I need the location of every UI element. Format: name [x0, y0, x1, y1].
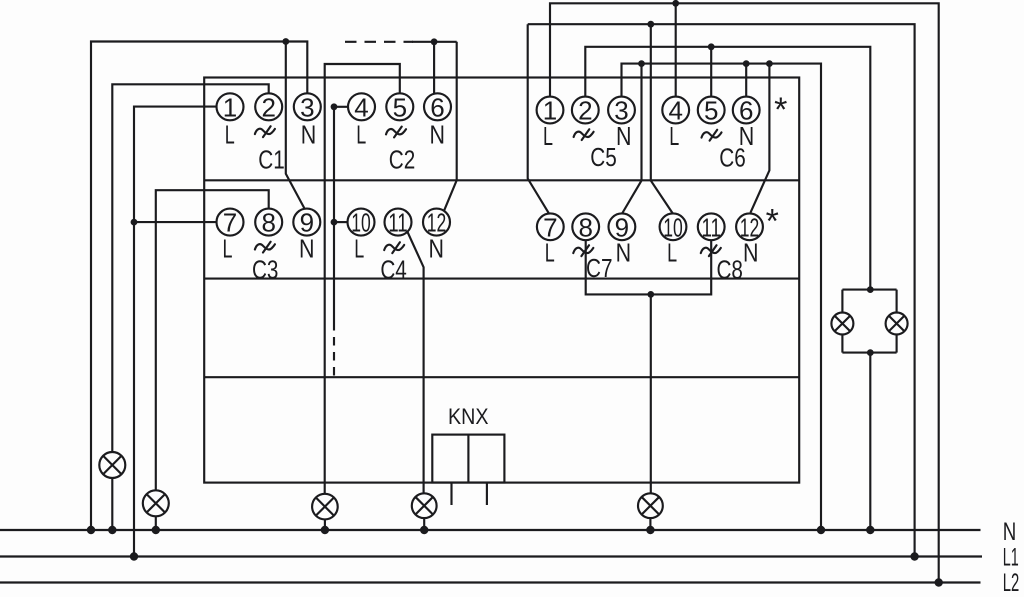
- wire L feed dashed continuation: [333, 322, 335, 377]
- wire N branch to terminal 12 (right block): [751, 64, 770, 213]
- svg-text:3: 3: [300, 92, 314, 122]
- svg-text:L: L: [225, 119, 235, 149]
- dimmer symbol C6: [702, 130, 722, 141]
- KNX pin -: [486, 483, 488, 506]
- lamp E7 (parallel pair right, channels C5+C6): [886, 313, 908, 335]
- wire lamp E5 to N bus: [649, 518, 651, 530]
- junction N to terminal 9: [638, 60, 645, 67]
- wire L1 bus to terminal 1 (left block): [134, 107, 217, 557]
- terminal 5 left block (output C2): [386, 93, 413, 120]
- dimmer symbol C4: [384, 242, 404, 253]
- wire terminal 5 to lamp E3: [325, 64, 400, 494]
- node lamp E3 on N bus: [321, 526, 329, 534]
- terminal 12 left block (N of C4): [423, 209, 450, 236]
- svg-text:N: N: [301, 119, 317, 149]
- dimmer symbol C8: [701, 245, 721, 256]
- terminal 3 right block (N of C5): [608, 97, 635, 124]
- wire terminals 8 and 11 joined (C7/C8 outputs): [586, 240, 712, 294]
- junction lamp pair bottom: [867, 349, 874, 356]
- svg-text:*: *: [766, 202, 779, 240]
- svg-text:N: N: [430, 119, 446, 149]
- junction L2 branch: [672, 0, 679, 7]
- terminal 1 left block (L of C1): [217, 93, 244, 120]
- wire lamp pair left leg lower: [841, 334, 843, 352]
- lamp E5 (channels C7+C8): [638, 493, 663, 518]
- terminal 1 right block (L of C5): [537, 97, 564, 124]
- lamp E4 (channel C4): [412, 493, 437, 518]
- junction N feed terminal 6: [431, 38, 438, 45]
- wire lamp pair to N bus: [869, 353, 871, 530]
- node lamp E2 on N bus: [152, 526, 160, 534]
- terminal 11 left block (output C4): [385, 209, 412, 236]
- wire lamp pair right leg lower: [896, 334, 898, 352]
- svg-text:8: 8: [261, 208, 275, 238]
- svg-text:5: 5: [704, 96, 718, 126]
- junction N to terminal 12: [766, 60, 773, 67]
- wire lamp pair right leg upper: [896, 290, 898, 313]
- terminal 7 left block (L of C3): [217, 209, 244, 236]
- wire lamp E2 to N bus: [155, 516, 157, 530]
- junction C7/C8 output: [647, 291, 654, 298]
- terminal 6 left block (N of C2): [424, 93, 451, 120]
- terminal 10 right block (L of C8): [660, 213, 687, 240]
- terminal 12 right block (N of C8): [736, 213, 763, 240]
- svg-text:N: N: [429, 233, 445, 263]
- svg-text:L: L: [545, 237, 555, 267]
- junction lamp pair top: [867, 286, 874, 293]
- wire N bus to terminal 3 (left block): [91, 42, 307, 531]
- dimmer symbol C5: [574, 129, 594, 140]
- terminal 7 right block (L of C7): [537, 213, 564, 240]
- svg-text:L: L: [223, 233, 233, 263]
- svg-text:C6: C6: [719, 142, 746, 172]
- node lamp E4 on N bus: [420, 526, 428, 534]
- device divider row1/row2: [204, 179, 799, 181]
- dimmer symbol C1: [255, 126, 275, 137]
- wire L1 branch to terminal 10 (right block): [651, 24, 673, 213]
- node lamp E1 on N bus: [108, 526, 116, 534]
- wire output junction to lamp E5: [650, 294, 652, 493]
- svg-text:C7: C7: [586, 253, 613, 283]
- KNX bus connector: [432, 435, 504, 483]
- svg-text:6: 6: [430, 92, 444, 122]
- lamp E2 (channel C3): [143, 490, 169, 516]
- svg-text:C2: C2: [389, 144, 416, 174]
- wire lamp pair left leg upper: [841, 290, 843, 313]
- actuator device outline: [204, 78, 799, 483]
- dimmer symbol C3: [255, 242, 275, 253]
- svg-text:*: *: [774, 91, 787, 129]
- wire L feed vertical (terminals 4 and 10): [333, 107, 335, 322]
- terminal 10 left block (L of C4): [348, 209, 375, 236]
- wire stub to terminal 10 (left block): [334, 221, 348, 223]
- svg-text:L: L: [667, 237, 677, 267]
- wire L1 branch to terminal 7 (left block): [134, 221, 217, 223]
- svg-text:L: L: [669, 121, 679, 151]
- junction N branch: [282, 38, 289, 45]
- svg-text:2: 2: [578, 96, 592, 126]
- wire L2 branch to terminal 4 (right block): [675, 3, 677, 96]
- svg-text:N: N: [616, 121, 632, 151]
- node N bus tap: [87, 526, 95, 534]
- wire junction to terminal 6 (left block): [433, 42, 435, 95]
- svg-text:N: N: [616, 237, 632, 267]
- svg-text:L1: L1: [1003, 543, 1019, 571]
- terminal 4 left block (L of C2): [348, 93, 375, 120]
- svg-text:C5: C5: [590, 142, 617, 172]
- wire lamp E4 to N bus: [423, 518, 425, 530]
- lamp E1 (channel C1): [99, 452, 125, 478]
- svg-text:11: 11: [388, 208, 408, 238]
- svg-text:N: N: [1003, 518, 1017, 546]
- wire stub to terminal 4 (left block): [334, 106, 348, 108]
- svg-text:KNX: KNX: [448, 404, 489, 429]
- svg-text:8: 8: [578, 212, 592, 242]
- KNX connector divider: [467, 435, 469, 483]
- wire L1 bus run (right): [528, 24, 915, 556]
- lamp E6 (parallel pair left, channels C5+C6): [831, 313, 853, 335]
- wire junction to terminal 12 (left block): [441, 42, 456, 218]
- junction L1 branch: [647, 21, 654, 28]
- lamp E3 (channel C2): [312, 494, 338, 520]
- terminal 9 left block (N of C3): [293, 209, 320, 236]
- svg-text:2: 2: [261, 92, 275, 122]
- svg-text:L: L: [354, 233, 364, 263]
- svg-text:N: N: [299, 233, 315, 263]
- node L1 bus tap: [130, 552, 138, 560]
- wire lamp pair top rail: [842, 289, 896, 291]
- terminal 8 right block (output C7): [572, 213, 599, 240]
- wire L1 to terminal 7 (right block): [528, 24, 549, 213]
- svg-text:C8: C8: [716, 254, 743, 284]
- node lamp pair on N bus: [866, 526, 874, 534]
- svg-text:L: L: [356, 119, 366, 149]
- svg-text:5: 5: [393, 92, 407, 122]
- wire terminal 2 to lamp E1: [112, 84, 268, 452]
- svg-text:11: 11: [701, 212, 721, 242]
- L1 bus line: [0, 555, 982, 557]
- wire N feed to junction: [412, 41, 457, 43]
- wire N feed dashed segment: [345, 41, 413, 43]
- wire terminal 2 to lamp pair: [585, 47, 870, 290]
- svg-text:4: 4: [354, 92, 368, 122]
- N bus line: [0, 529, 981, 531]
- KNX pin +: [450, 483, 452, 506]
- junction N to terminal 6: [743, 60, 750, 67]
- wire N bus run (right): [622, 64, 822, 530]
- node L2 bus tap: [935, 578, 943, 586]
- terminal 2 left block (output C1): [255, 93, 282, 120]
- wire N branch to terminal 6 (right block): [745, 64, 747, 97]
- terminal 9 right block (N of C7): [609, 213, 636, 240]
- L2 bus line: [0, 581, 981, 583]
- terminal 11 right block (output C8): [698, 213, 725, 240]
- dimmer symbol C2: [386, 127, 406, 138]
- junction L feed terminal 4: [331, 103, 338, 110]
- junction L feed terminal 10: [331, 219, 338, 226]
- svg-text:N: N: [743, 237, 759, 267]
- svg-text:C3: C3: [252, 255, 279, 285]
- wire N branch to terminal 9 (left block): [286, 42, 305, 209]
- svg-text:C1: C1: [258, 144, 285, 174]
- wire terminal 11 to lamp E4: [407, 232, 423, 494]
- node N bus tap right: [817, 526, 825, 534]
- wire L2 bus to terminal 1 (right block): [550, 3, 939, 582]
- svg-text:L2: L2: [1003, 569, 1020, 597]
- wire N branch to terminal 9 (right block): [622, 64, 641, 214]
- wire branch to terminal 5 (right block): [710, 47, 712, 97]
- terminal 2 right block (output C5): [572, 97, 599, 124]
- terminal 3 left block (N of C1): [294, 93, 321, 120]
- svg-text:C4: C4: [380, 255, 407, 285]
- terminal 4 right block (L of C6): [662, 97, 689, 124]
- svg-text:L: L: [543, 121, 553, 151]
- terminal 5 right block (output C6): [698, 97, 725, 124]
- device divider row2/middle: [204, 278, 799, 280]
- device divider middle/bottom: [204, 376, 799, 378]
- node lamp E5 on N bus: [646, 526, 654, 534]
- wire lamp E3 to N bus: [324, 519, 326, 530]
- terminal 8 left block (output C3): [255, 209, 282, 236]
- wire terminal 8 to lamp E2: [156, 190, 269, 490]
- junction L1 branch: [131, 219, 138, 226]
- wire lamp pair bottom rail: [842, 352, 896, 354]
- wire lamp E1 to N bus: [111, 478, 113, 530]
- dimmer symbol C7: [573, 245, 593, 256]
- node L1 bus tap right: [910, 552, 918, 560]
- terminal 6 right block (N of C6): [733, 97, 760, 124]
- svg-text:1: 1: [223, 92, 237, 122]
- junction output branch: [708, 43, 715, 50]
